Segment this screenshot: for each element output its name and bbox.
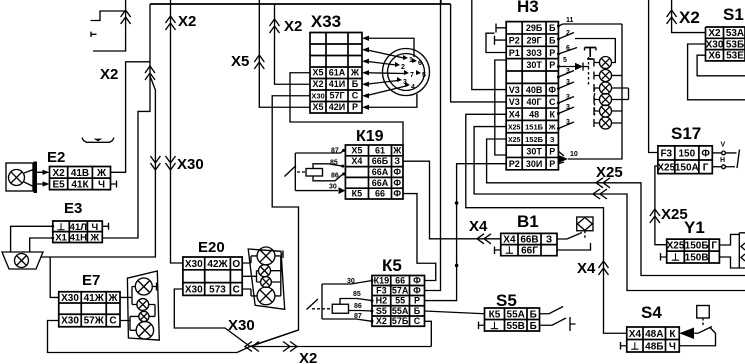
connector block E20 table xyxy=(183,239,242,295)
svg-text:5: 5 xyxy=(563,57,567,64)
svg-text:Х5: Х5 xyxy=(312,102,323,112)
svg-text:150: 150 xyxy=(678,149,695,160)
terminal S4 row2 xyxy=(621,342,627,350)
svg-text:57Б: 57Б xyxy=(392,316,409,326)
svg-text:Х25: Х25 xyxy=(596,164,623,181)
wire K19 row5 to K5 row1 xyxy=(403,194,436,281)
button and switch S4 xyxy=(679,306,715,346)
connector X2 chevron xyxy=(270,18,303,35)
svg-text:Б: Б xyxy=(530,309,537,320)
wire fork to X30 net xyxy=(41,76,155,257)
horn symbol B1 xyxy=(577,217,593,239)
svg-text:6: 6 xyxy=(418,60,422,67)
svg-text:30: 30 xyxy=(329,184,337,191)
svg-text:Р: Р xyxy=(549,48,555,58)
svg-text:150В: 150В xyxy=(685,253,709,264)
svg-text:Х2: Х2 xyxy=(708,28,721,39)
connector X30/X2 junction bottom xyxy=(228,317,431,364)
svg-text:Е7: Е7 xyxy=(82,272,100,289)
wire K5 row4 to S5 xyxy=(425,311,485,314)
housing bracket symbol xyxy=(82,138,114,143)
connector X2 chevron on wire C xyxy=(166,13,197,30)
svg-text:К5: К5 xyxy=(382,256,402,275)
svg-text:О: О xyxy=(232,259,240,270)
svg-text:Ф: Ф xyxy=(393,178,401,188)
svg-text:Ж: Ж xyxy=(107,293,118,304)
svg-text:Ж: Ж xyxy=(90,232,100,243)
svg-text:66Б: 66Б xyxy=(372,156,389,166)
wire H3 row3 link xyxy=(486,33,506,52)
switch S5 xyxy=(540,307,576,332)
svg-text:53Б: 53Б xyxy=(726,39,744,50)
wire E20 row3 to X30 junction xyxy=(174,289,250,347)
svg-text:11: 11 xyxy=(566,17,574,24)
svg-text:66В: 66В xyxy=(520,234,538,245)
svg-text:29Г: 29Г xyxy=(527,35,542,45)
svg-text:Р: Р xyxy=(549,60,555,70)
svg-text:Х4: Х4 xyxy=(351,156,362,166)
H3 pin10 arrow xyxy=(558,151,577,164)
svg-text:Х30: Х30 xyxy=(185,284,203,295)
svg-text:Б: Б xyxy=(352,79,359,89)
valve unit right of Y1 xyxy=(719,233,745,268)
block B1 xyxy=(501,212,557,257)
svg-text:Ж: Ж xyxy=(392,145,402,155)
svg-text:10: 10 xyxy=(570,151,578,158)
svg-text:К19: К19 xyxy=(356,128,384,145)
connector block E3 table xyxy=(53,200,103,243)
svg-text:S1: S1 xyxy=(723,5,744,24)
terminal B1 row2 xyxy=(495,247,501,255)
lamp collector wires xyxy=(568,24,629,159)
svg-text:Р: Р xyxy=(549,159,555,169)
svg-text:41В: 41В xyxy=(71,168,89,179)
wire B main vertical to E3 xyxy=(102,4,150,238)
wire S1 row2 out xyxy=(688,44,745,100)
svg-text:Х4: Х4 xyxy=(469,218,488,235)
lamp cluster E20 xyxy=(242,247,285,309)
svg-text:30З: 30З xyxy=(526,48,542,58)
svg-text:Х25: Х25 xyxy=(508,125,521,132)
block Y1 xyxy=(667,218,720,264)
svg-text:40Г: 40Г xyxy=(527,97,542,107)
svg-text:40В: 40В xyxy=(526,85,543,95)
diode on pin5 line xyxy=(558,63,589,71)
svg-text:Р2: Р2 xyxy=(509,35,520,45)
block K5 table xyxy=(372,256,425,326)
svg-text:Х30: Х30 xyxy=(177,156,204,173)
svg-text:⊥: ⊥ xyxy=(631,341,640,352)
svg-text:29Б: 29Б xyxy=(526,23,543,33)
svg-text:Р: Р xyxy=(549,147,555,157)
svg-text:53Е: 53Е xyxy=(726,51,744,62)
svg-text:З: З xyxy=(546,234,552,245)
svg-text:Е20: Е20 xyxy=(198,239,225,256)
svg-text:Х30: Х30 xyxy=(185,259,203,270)
svg-text:Ф: Ф xyxy=(393,167,401,177)
svg-text:Ф: Ф xyxy=(413,286,421,296)
svg-text:61А: 61А xyxy=(329,68,346,78)
svg-text:30И: 30И xyxy=(526,159,542,169)
svg-text:150Б: 150Б xyxy=(685,241,709,252)
svg-text:41Л: 41Л xyxy=(70,222,88,233)
svg-text:Х2: Х2 xyxy=(679,8,700,27)
svg-text:⊥: ⊥ xyxy=(57,222,66,233)
connector X4 chevron to S4 xyxy=(577,260,609,277)
wire E7 row3 to bottom bus xyxy=(48,321,238,353)
indicator lamps H3 (6) xyxy=(600,57,612,130)
svg-text:66А: 66А xyxy=(372,167,389,177)
svg-text:85: 85 xyxy=(330,160,338,167)
connector block E2 table xyxy=(50,167,111,191)
svg-text:Ф: Ф xyxy=(548,85,556,95)
wire E2 row1 to X2 net xyxy=(111,62,151,173)
svg-text:Е2: Е2 xyxy=(47,149,65,166)
switch contact bars at lamps xyxy=(589,57,600,127)
svg-text:Х4: Х4 xyxy=(629,329,642,340)
svg-text:66А: 66А xyxy=(372,178,389,188)
svg-text:Х30: Х30 xyxy=(61,293,79,304)
svg-text:К5: К5 xyxy=(352,189,363,199)
svg-text:Ф: Ф xyxy=(701,149,710,160)
svg-text:Г: Г xyxy=(703,162,709,173)
terminal after E3 row1 xyxy=(102,223,108,230)
svg-text:150А: 150А xyxy=(675,162,699,173)
svg-text:41И: 41И xyxy=(329,79,345,89)
svg-text:Ж: Ж xyxy=(96,168,107,179)
svg-text:61: 61 xyxy=(375,145,385,155)
svg-text:F3: F3 xyxy=(376,286,387,296)
wire X5 net to X33 row7 xyxy=(259,0,310,107)
svg-text:85: 85 xyxy=(353,291,361,298)
svg-text:48: 48 xyxy=(529,110,539,120)
connector block E7 table xyxy=(59,272,120,327)
svg-text:55: 55 xyxy=(395,296,405,306)
svg-text:57Ж: 57Ж xyxy=(84,316,105,327)
block S17 xyxy=(657,124,712,174)
H3 right side pins and switches xyxy=(557,17,622,68)
svg-text:Х25: Х25 xyxy=(667,241,685,252)
svg-text:57А: 57А xyxy=(392,286,409,296)
svg-text:Р2: Р2 xyxy=(509,159,520,169)
svg-text:Н2: Н2 xyxy=(376,296,388,306)
svg-text:Х2: Х2 xyxy=(312,79,323,89)
svg-text:Х30: Х30 xyxy=(311,92,324,101)
svg-text:С: С xyxy=(233,284,240,295)
wire S1 row3 out xyxy=(697,55,745,76)
svg-text:573: 573 xyxy=(209,284,226,295)
svg-text:⊥: ⊥ xyxy=(671,253,680,264)
block S1 xyxy=(706,5,745,62)
wire K5 row5 to X2 junction xyxy=(425,321,432,346)
svg-text:⊥: ⊥ xyxy=(505,246,514,257)
svg-text:4: 4 xyxy=(411,84,415,91)
svg-text:К5: К5 xyxy=(489,309,501,320)
svg-text:З: З xyxy=(394,156,400,166)
wire K5 row2 from top xyxy=(425,0,441,291)
T symbol xyxy=(585,48,597,60)
svg-text:152Б: 152Б xyxy=(525,135,544,144)
connector block X33 table xyxy=(310,12,362,113)
svg-text:86: 86 xyxy=(354,303,362,310)
relay K5 symbol xyxy=(307,278,374,323)
svg-text:С: С xyxy=(109,316,116,327)
wire X33 row6 to X30 junction xyxy=(250,96,310,347)
svg-text:V3: V3 xyxy=(509,97,520,107)
svg-text:48Б: 48Б xyxy=(645,341,663,352)
connector X4 chevron at B1 xyxy=(469,218,491,244)
svg-text:Х30: Х30 xyxy=(228,317,255,334)
svg-text:42Ж: 42Ж xyxy=(207,259,228,270)
svg-text:С: С xyxy=(414,316,421,326)
svg-text:Е3: Е3 xyxy=(64,200,82,217)
H3 pins 3 group xyxy=(557,68,574,130)
svg-text:Х1: Х1 xyxy=(55,232,67,243)
svg-text:30Т: 30Т xyxy=(526,147,542,157)
wire E3 lamp to X30 net and E7 xyxy=(50,257,59,297)
svg-text:V: V xyxy=(721,142,726,149)
svg-text:Х30: Х30 xyxy=(61,316,79,327)
svg-text:86: 86 xyxy=(331,173,339,180)
relay block K19 table xyxy=(345,128,403,199)
wire H3 row4-row11 link xyxy=(495,60,506,155)
block S4 xyxy=(627,303,680,352)
svg-text:87: 87 xyxy=(331,148,339,155)
top bus wire xyxy=(150,0,451,4)
svg-text:Н: Н xyxy=(720,157,725,164)
svg-text:Х2: Х2 xyxy=(299,350,317,364)
svg-text:К: К xyxy=(549,110,555,120)
switch S17 contacts xyxy=(712,142,739,169)
wire K19 row2 to X4/B1 xyxy=(403,161,501,239)
wire H3 row10 to X25 right edge xyxy=(487,139,745,276)
svg-text:S4: S4 xyxy=(641,303,662,322)
svg-text:41Ж: 41Ж xyxy=(84,293,105,304)
wire top to H3 row6 xyxy=(472,0,506,90)
svg-text:З: З xyxy=(550,135,555,144)
wire S17 row2 to Y1 with X25 chevron xyxy=(650,166,688,245)
wire top-left vertical with X2 chevron xyxy=(93,0,131,51)
switch B1 xyxy=(557,233,591,251)
svg-text:41Н: 41Н xyxy=(70,232,88,243)
terminal top-left xyxy=(91,32,97,37)
connector X30 chevrons (down) on both wires xyxy=(150,156,203,173)
svg-text:30: 30 xyxy=(347,278,355,285)
svg-text:Х2: Х2 xyxy=(376,316,387,326)
svg-text:V3: V3 xyxy=(509,85,520,95)
wire C vertical to E20 xyxy=(171,0,183,263)
svg-text:30Т: 30Т xyxy=(526,60,542,70)
svg-text:Р1: Р1 xyxy=(509,48,520,58)
wire X33 row4 loop bus xyxy=(290,73,403,145)
wire H3 row9 to X25 right edge xyxy=(474,127,745,291)
svg-text:Р: Р xyxy=(414,296,420,306)
svg-text:Х2: Х2 xyxy=(100,66,118,83)
svg-text:Х2: Х2 xyxy=(178,13,196,30)
svg-text:Х30: Х30 xyxy=(706,39,724,50)
svg-text:66: 66 xyxy=(395,276,405,286)
connector X33 circular plug xyxy=(383,49,430,96)
relay K19 symbol xyxy=(285,148,346,195)
svg-text:Ф: Ф xyxy=(413,276,421,286)
lamp unit E2 xyxy=(6,149,65,193)
svg-text:F3: F3 xyxy=(660,149,672,160)
terminal S5 row2 xyxy=(479,322,485,330)
svg-text:Y1: Y1 xyxy=(684,218,705,237)
svg-text:48А: 48А xyxy=(645,329,663,340)
svg-text:Х25: Х25 xyxy=(657,162,675,173)
svg-text:151Б: 151Б xyxy=(525,123,544,132)
svg-text:7: 7 xyxy=(410,72,414,79)
svg-text:55А: 55А xyxy=(507,309,525,320)
svg-text:Б: Б xyxy=(414,306,421,316)
terminal Y1 row2 xyxy=(661,253,667,261)
svg-text:⊥: ⊥ xyxy=(490,321,499,332)
wire bus to H3 row7 xyxy=(451,4,507,102)
connector X2 chevron on wire B xyxy=(100,66,155,83)
svg-text:2: 2 xyxy=(401,64,405,71)
svg-text:Н3: Н3 xyxy=(517,0,539,16)
svg-text:Х6: Х6 xyxy=(708,51,721,62)
svg-text:66: 66 xyxy=(375,189,385,199)
svg-text:41К: 41К xyxy=(71,179,89,190)
svg-text:Х4: Х4 xyxy=(509,110,520,120)
terminal H3 row1 xyxy=(496,24,506,33)
svg-text:55А: 55А xyxy=(392,306,409,316)
svg-text:Ч: Ч xyxy=(91,222,98,233)
terminal after E2 row2 xyxy=(111,181,117,188)
svg-text:Б: Б xyxy=(549,35,556,45)
wire H3 row8 to X4/S4 xyxy=(466,114,627,333)
svg-text:Х5: Х5 xyxy=(231,53,249,70)
svg-text:Х4: Х4 xyxy=(503,234,516,245)
svg-text:S17: S17 xyxy=(671,124,701,143)
wire top to S17 row1 xyxy=(649,0,658,153)
terminal H3 row2 xyxy=(495,36,507,45)
svg-text:Х2: Х2 xyxy=(52,168,65,179)
svg-text:Ф: Ф xyxy=(393,189,401,199)
svg-text:В1: В1 xyxy=(517,212,539,231)
svg-text:Х4: Х4 xyxy=(577,260,596,277)
svg-text:К: К xyxy=(669,329,676,340)
svg-text:Х5: Х5 xyxy=(312,68,323,78)
block H3 table xyxy=(506,0,558,170)
wire X2 net to X33 row5 xyxy=(275,4,311,84)
svg-text:Ч: Ч xyxy=(669,341,676,352)
svg-text:Ж: Ж xyxy=(350,68,360,78)
svg-text:57Г: 57Г xyxy=(329,91,344,101)
svg-text:66Г: 66Г xyxy=(521,246,538,257)
svg-text:С: С xyxy=(549,97,556,107)
svg-text:55В: 55В xyxy=(507,321,525,332)
block S5 xyxy=(485,291,540,332)
svg-text:Ж: Ж xyxy=(548,123,556,132)
svg-text:Х5: Х5 xyxy=(351,145,362,155)
svg-text:К19: К19 xyxy=(374,276,390,286)
svg-text:Х25: Х25 xyxy=(508,137,521,144)
svg-text:S5: S5 xyxy=(376,306,387,316)
svg-text:Г: Г xyxy=(711,241,717,252)
svg-text:53А: 53А xyxy=(726,28,744,39)
svg-text:Х2: Х2 xyxy=(284,18,302,35)
lamp E3 (trapezoid housing) xyxy=(2,252,43,269)
wires E3 to lamp xyxy=(11,225,55,252)
wire H3 row12 to K5 row3 xyxy=(425,164,507,301)
svg-text:Б: Б xyxy=(530,321,537,332)
svg-text:С: С xyxy=(352,91,359,101)
svg-text:87: 87 xyxy=(354,313,362,320)
connector X25 chevron row9 wire xyxy=(593,189,607,199)
svg-text:Р: Р xyxy=(352,102,358,112)
svg-text:5: 5 xyxy=(422,72,426,79)
lamp cluster E7 xyxy=(120,271,159,340)
svg-text:Ч: Ч xyxy=(98,179,105,190)
wire top-left branch stub xyxy=(91,11,126,21)
connector X25 chevron row10 wire xyxy=(596,164,623,188)
svg-text:42И: 42И xyxy=(329,102,345,112)
wires X33 rows to plug pins with arrows xyxy=(362,36,417,110)
wire X2 to S1 xyxy=(667,0,706,33)
svg-text:Б: Б xyxy=(549,23,556,33)
svg-text:Е5: Е5 xyxy=(52,179,65,190)
connector X5 chevron xyxy=(231,53,264,70)
svg-text:Х33: Х33 xyxy=(311,12,341,31)
